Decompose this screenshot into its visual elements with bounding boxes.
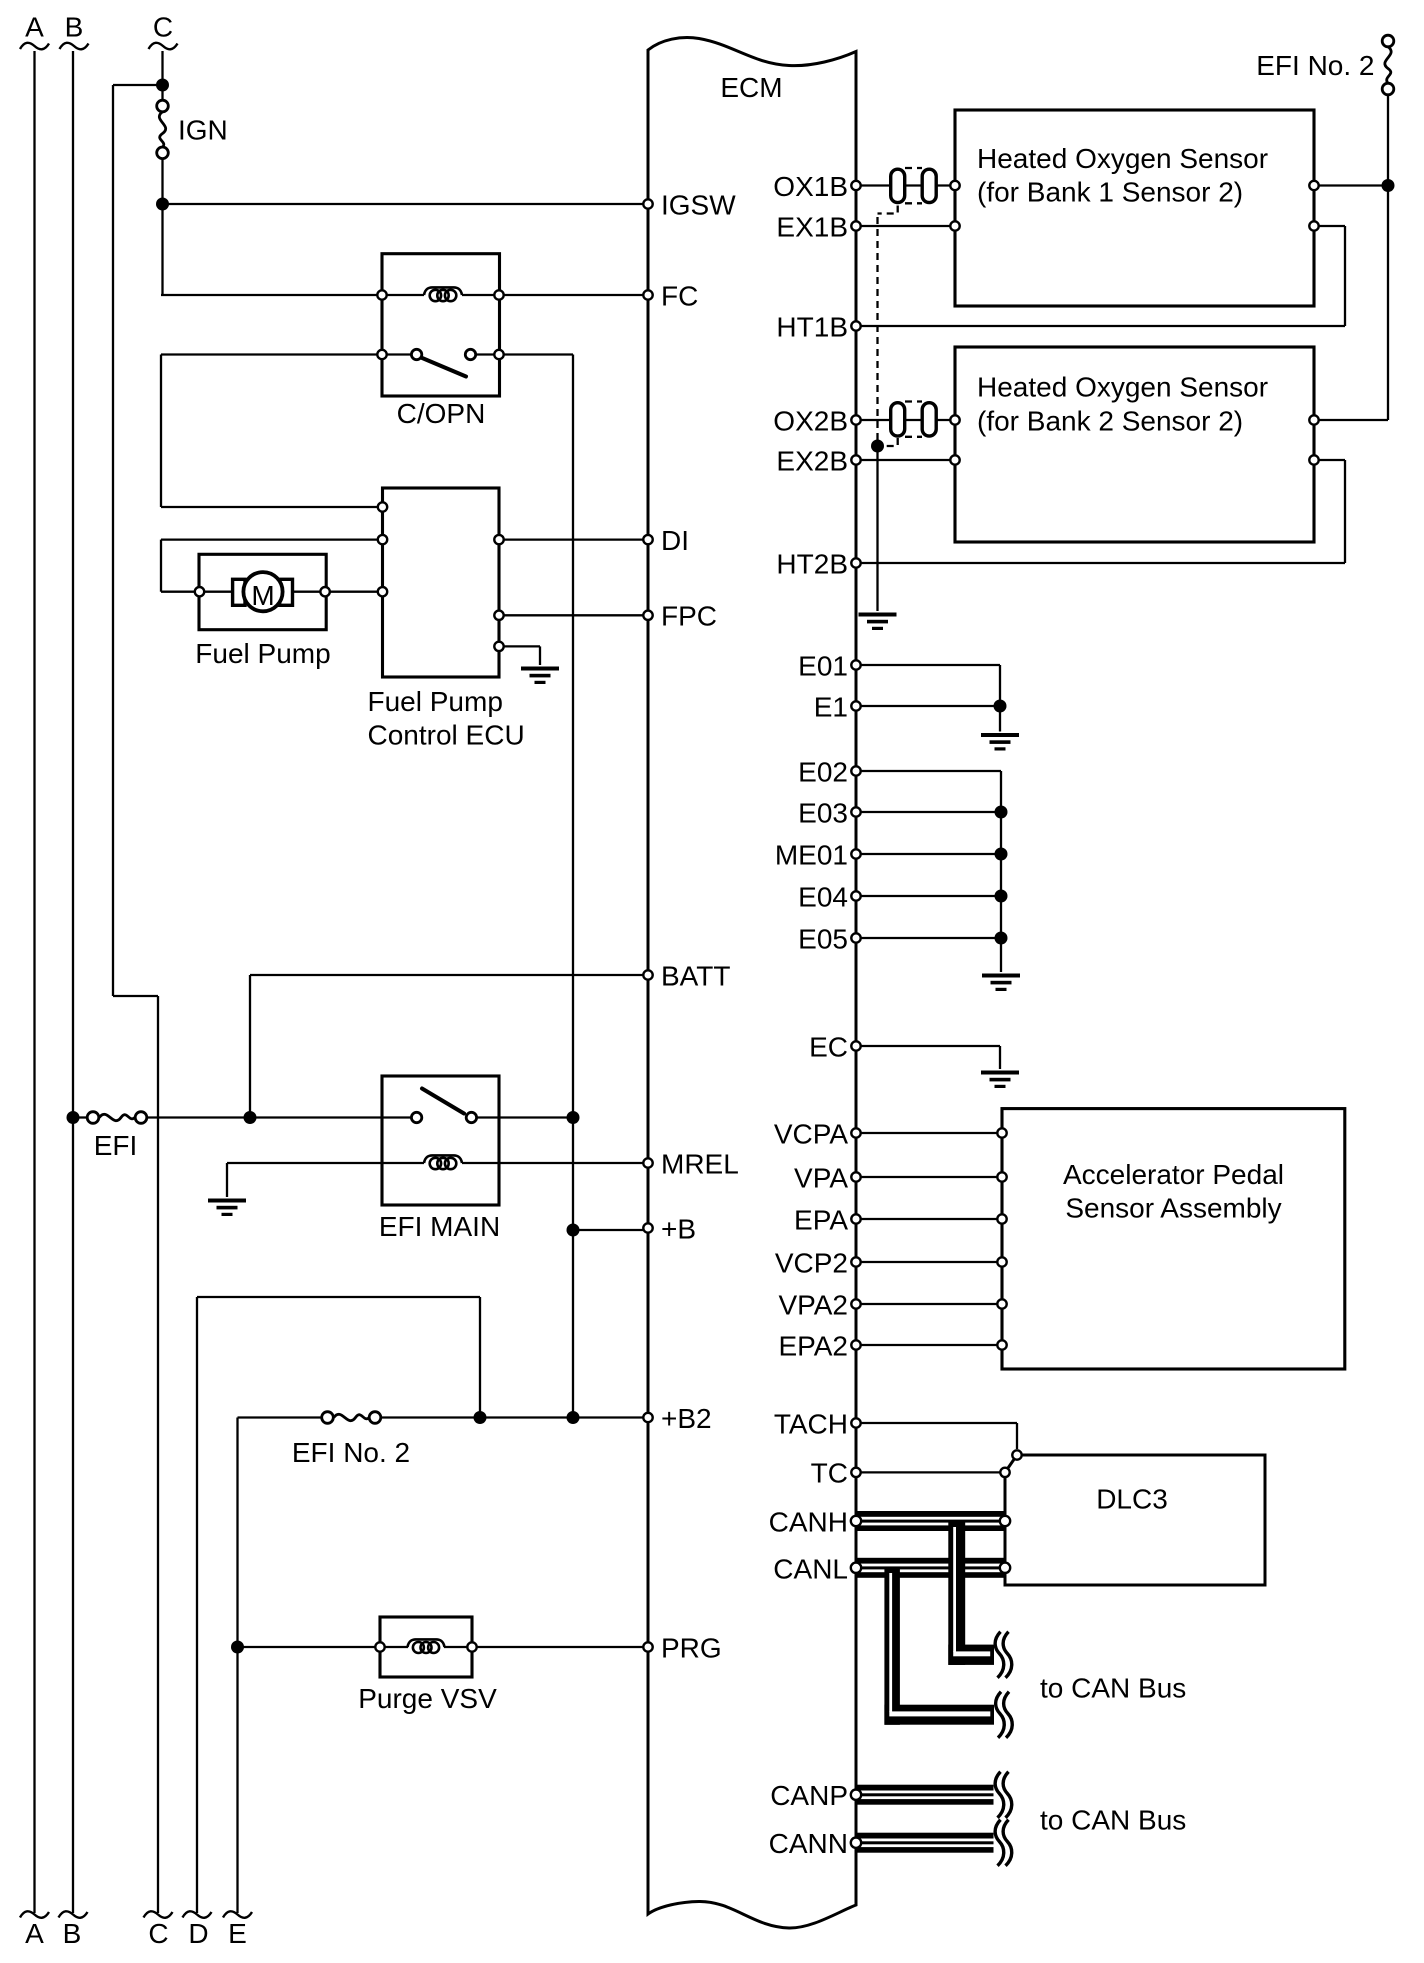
svg-text:OX1B: OX1B <box>773 171 848 202</box>
svg-text:A: A <box>25 12 44 43</box>
svg-text:DLC3: DLC3 <box>1096 1484 1168 1515</box>
svg-text:E05: E05 <box>798 923 848 954</box>
svg-text:BATT: BATT <box>661 960 730 991</box>
svg-text:CANL: CANL <box>773 1553 848 1584</box>
svg-text:VPA: VPA <box>794 1162 848 1193</box>
svg-text:C/OPN: C/OPN <box>397 398 486 429</box>
svg-text:EFI: EFI <box>94 1130 138 1161</box>
svg-text:EPA2: EPA2 <box>778 1330 848 1361</box>
svg-text:Fuel Pump: Fuel Pump <box>368 686 503 717</box>
svg-text:PRG: PRG <box>661 1632 722 1663</box>
svg-text:A: A <box>25 1918 44 1949</box>
svg-text:ECM: ECM <box>720 72 782 103</box>
svg-text:EFI No. 2: EFI No. 2 <box>292 1437 410 1468</box>
svg-text:VCPA: VCPA <box>774 1118 848 1149</box>
svg-text:CANH: CANH <box>769 1506 848 1537</box>
svg-text:(for Bank 2 Sensor 2): (for Bank 2 Sensor 2) <box>977 405 1243 436</box>
svg-text:FC: FC <box>661 280 698 311</box>
svg-text:B: B <box>65 12 84 43</box>
svg-text:MREL: MREL <box>661 1148 739 1179</box>
svg-text:Fuel Pump: Fuel Pump <box>195 638 330 669</box>
svg-text:E02: E02 <box>798 756 848 787</box>
svg-text:TC: TC <box>811 1458 848 1489</box>
svg-text:Sensor Assembly: Sensor Assembly <box>1065 1193 1281 1224</box>
svg-text:IGN: IGN <box>178 115 228 146</box>
svg-text:ME01: ME01 <box>775 839 848 870</box>
svg-text:+B2: +B2 <box>661 1403 712 1434</box>
svg-text:Control ECU: Control ECU <box>368 720 525 751</box>
svg-text:+B: +B <box>661 1213 696 1244</box>
svg-text:FPC: FPC <box>661 601 717 632</box>
svg-text:to CAN Bus: to CAN Bus <box>1040 1805 1186 1836</box>
svg-text:CANN: CANN <box>769 1828 848 1859</box>
svg-text:VPA2: VPA2 <box>778 1289 848 1320</box>
svg-text:EFI No. 2: EFI No. 2 <box>1256 50 1374 81</box>
svg-text:to CAN Bus: to CAN Bus <box>1040 1673 1186 1704</box>
svg-text:EPA: EPA <box>794 1204 848 1235</box>
svg-text:IGSW: IGSW <box>661 189 736 220</box>
svg-text:D: D <box>188 1918 208 1949</box>
svg-text:E04: E04 <box>798 881 848 912</box>
svg-text:Heated Oxygen Sensor: Heated Oxygen Sensor <box>977 143 1268 174</box>
svg-text:HT2B: HT2B <box>776 548 848 579</box>
svg-text:B: B <box>63 1918 82 1949</box>
svg-text:E: E <box>228 1918 247 1949</box>
svg-text:C: C <box>153 12 173 43</box>
svg-text:C: C <box>148 1918 168 1949</box>
svg-text:EC: EC <box>809 1031 848 1062</box>
svg-text:VCP2: VCP2 <box>775 1247 848 1278</box>
svg-text:Purge VSV: Purge VSV <box>358 1683 497 1714</box>
svg-text:Accelerator Pedal: Accelerator Pedal <box>1063 1159 1284 1190</box>
svg-text:TACH: TACH <box>774 1408 848 1439</box>
svg-text:DI: DI <box>661 525 689 556</box>
svg-text:E01: E01 <box>798 650 848 681</box>
svg-text:Heated Oxygen Sensor: Heated Oxygen Sensor <box>977 372 1268 403</box>
svg-text:EX2B: EX2B <box>776 445 848 476</box>
svg-text:CANP: CANP <box>770 1780 848 1811</box>
svg-text:EX1B: EX1B <box>776 211 848 242</box>
svg-text:(for Bank 1 Sensor 2): (for Bank 1 Sensor 2) <box>977 177 1243 208</box>
svg-text:E03: E03 <box>798 797 848 828</box>
svg-text:HT1B: HT1B <box>776 311 848 342</box>
svg-text:M: M <box>251 580 274 611</box>
svg-text:OX2B: OX2B <box>773 405 848 436</box>
svg-text:E1: E1 <box>814 691 848 722</box>
svg-text:EFI MAIN: EFI MAIN <box>379 1211 500 1242</box>
